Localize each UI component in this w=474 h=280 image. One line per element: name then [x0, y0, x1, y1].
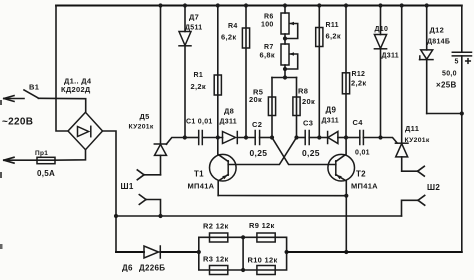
svg-text:КД202Д: КД202Д: [61, 85, 91, 94]
wire cross-coupling C2 node to T2 base: [272, 138, 336, 165]
svg-text:Д226Б: Д226Б: [139, 264, 165, 273]
svg-text:6,8к: 6,8к: [260, 51, 275, 60]
capacitor C3: [297, 131, 320, 145]
svg-text:КУ201к: КУ201к: [129, 124, 154, 131]
potentiometer R6 wiper: [285, 22, 298, 39]
node junction bus D10: [378, 3, 382, 7]
resistor R10 body: [257, 266, 275, 275]
node junction rail R12 collector: [344, 135, 348, 139]
svg-text:С4: С4: [353, 118, 364, 127]
wire fuse to bridge bottom: [55, 150, 86, 161]
svg-text:Д814Б: Д814Б: [427, 39, 450, 46]
connector Sh1 pin 2: [139, 195, 160, 216]
svg-text:С2: С2: [252, 120, 262, 129]
svg-text:МП41А: МП41А: [188, 182, 215, 191]
svg-text:100: 100: [261, 22, 274, 29]
svg-text:R4: R4: [228, 23, 238, 30]
node junction rail R8: [294, 135, 298, 139]
diode D8: [223, 132, 256, 144]
node junction R7 wiper: [283, 67, 287, 71]
svg-text:6,2к: 6,2к: [326, 32, 341, 41]
svg-text:R3 12к: R3 12к: [203, 255, 229, 264]
svg-text:Д5: Д5: [140, 112, 150, 121]
diode D10 column and symbol: [374, 6, 386, 138]
resistor R8 body: [293, 97, 300, 116]
node junction rail R11: [317, 135, 321, 139]
svg-text:0,25: 0,25: [302, 148, 320, 158]
node junction bus D11: [400, 3, 404, 7]
svg-text:Д311: Д311: [322, 118, 339, 125]
wire split to R5 and R8: [272, 77, 297, 79]
svg-text:0,01: 0,01: [355, 150, 370, 157]
scan smudge left edge 1: [0, 100, 2, 105]
svg-text:Ш1: Ш1: [121, 182, 134, 191]
wire cross-coupling C3 node to T1 base: [228, 138, 296, 165]
svg-text:Д9: Д9: [326, 106, 337, 115]
svg-text:Д311: Д311: [382, 53, 399, 60]
switch B1 arm: [24, 90, 39, 98]
svg-text:Д8: Д8: [224, 107, 234, 116]
svg-text:С3: С3: [303, 119, 313, 128]
wire R7 to split node: [284, 65, 286, 78]
node junction bus D12: [425, 3, 429, 7]
bridge inner diode symbol: [78, 126, 91, 136]
svg-text:Д311: Д311: [220, 119, 237, 126]
svg-text:20к: 20к: [249, 95, 262, 104]
node junction rail D7 gate: [183, 135, 187, 139]
svg-text:0,5А: 0,5А: [37, 169, 55, 178]
svg-text:~220В: ~220В: [2, 117, 33, 128]
svg-text:R1: R1: [194, 72, 204, 79]
resistor R5 body: [268, 97, 275, 116]
svg-text:Д10: Д10: [375, 26, 389, 33]
svg-text:0,25: 0,25: [250, 148, 268, 158]
node junction bus R11: [317, 3, 321, 7]
scan smudge left edge 2: [0, 172, 2, 178]
wire switch to bridge top: [39, 98, 86, 112]
wire resistor network middle tie: [242, 237, 244, 270]
resistor R12 column (also T2 collector node): [345, 6, 347, 138]
wire resistor network upper branch: [199, 237, 287, 252]
svg-text:R8: R8: [298, 87, 308, 96]
node junction network right: [285, 250, 289, 254]
connector Sh1 pin 1: [137, 170, 160, 180]
wire resistor network lower branch: [199, 252, 287, 270]
fuse Pr1 body: [37, 157, 55, 163]
zener D12 column and symbol: [420, 6, 434, 114]
thyristor D5 gate wire: [166, 138, 185, 145]
node junction loop bottom right: [460, 111, 464, 115]
svg-text:5: 5: [455, 59, 459, 66]
node junction bus R1: [216, 3, 220, 7]
svg-text:Д12: Д12: [430, 26, 445, 35]
wire top positive bus: [56, 5, 462, 7]
node junction split: [283, 75, 287, 79]
svg-text:R12: R12: [352, 71, 366, 78]
capacitor C4: [346, 131, 381, 145]
svg-text:В1: В1: [29, 83, 39, 92]
resistor R11 column: [318, 6, 320, 138]
gate rail wire with dots (left part): [185, 137, 199, 139]
node junction Sh1 pin2 to line A: [158, 214, 162, 218]
wire bottom rail left segment: [116, 251, 144, 253]
transistor T2: [328, 138, 355, 196]
wire zener loop bottom: [427, 113, 462, 115]
resistor R5 column: [271, 78, 273, 138]
node junction bus R12: [344, 3, 348, 7]
connector Sh2 pin 2: [402, 195, 425, 216]
node junction rail R4: [244, 135, 248, 139]
resistor R3 body: [210, 266, 228, 275]
label plus (C5): [466, 59, 471, 64]
node junction rail R5: [270, 135, 274, 139]
svg-text:2,2к: 2,2к: [191, 82, 206, 91]
wire line A (connector common): [116, 215, 402, 217]
thyristor D5 column from bus: [160, 6, 162, 145]
node junction network mid bottom: [241, 268, 245, 272]
potentiometer R6 body: [281, 13, 289, 34]
wire C1 to R1 node: [202, 137, 222, 139]
svg-text:КУ201к: КУ201к: [405, 137, 430, 144]
svg-text:2,2к: 2,2к: [351, 79, 366, 88]
svg-text:Д511: Д511: [185, 25, 202, 32]
thyristor D11 symbol: [395, 143, 408, 171]
svg-text:Ш2: Ш2: [427, 183, 440, 192]
diode D6: [144, 246, 199, 258]
wire right column upper (bus to C5): [461, 6, 463, 53]
node junction bus D5 column: [158, 3, 162, 7]
node junction emitter to bottom rail: [344, 250, 348, 254]
node junction network left: [197, 250, 201, 254]
diode D9: [319, 132, 346, 144]
svg-text:Д11: Д11: [405, 124, 419, 133]
svg-text:С1 0,01: С1 0,01: [186, 119, 213, 126]
resistor R11 body: [316, 28, 323, 47]
svg-text:R6: R6: [264, 14, 274, 21]
mains arrow left (AC input): [4, 96, 24, 102]
svg-text:R11: R11: [326, 22, 339, 29]
node junction T2 emitter: [344, 194, 348, 198]
scan smudge left edge 3: [0, 244, 3, 249]
thyristor D5 symbol: [154, 144, 166, 175]
transistor T1: [210, 138, 237, 196]
svg-text:Т1: Т1: [194, 170, 204, 179]
svg-text:R10 12к: R10 12к: [248, 256, 278, 265]
svg-text:МП41А: МП41А: [351, 182, 378, 191]
node junction rail R1 collector: [216, 135, 220, 139]
resistor R8 column: [296, 78, 298, 138]
svg-text:6,2к: 6,2к: [221, 33, 236, 42]
node junction rail D10: [378, 135, 382, 139]
svg-text:Д7: Д7: [189, 13, 199, 22]
svg-text:×25В: ×25В: [436, 81, 457, 90]
svg-text:20к: 20к: [302, 97, 315, 106]
wire bottom rail right segment: [287, 251, 462, 253]
capacitor C1: [199, 131, 203, 145]
resistor R1 column: [217, 6, 219, 138]
node junction bus D7: [183, 3, 187, 7]
wire left column from bus to bridge left corner: [56, 6, 68, 132]
svg-text:R9 12к: R9 12к: [249, 221, 275, 230]
svg-text:50,0: 50,0: [442, 71, 457, 78]
resistor R2 body: [210, 233, 228, 242]
node junction lineA-left: [114, 214, 118, 218]
capacitor C2: [255, 131, 272, 145]
node junction R6 wiper: [283, 36, 287, 40]
wire T2 emitter down to bottom rail: [345, 196, 347, 252]
svg-text:R2 12к: R2 12к: [203, 222, 229, 231]
fuse Pr1 arrow and wire: [4, 157, 55, 163]
resistor R12 body: [342, 73, 349, 94]
bridge rectifier D1..D4 diamond: [68, 112, 103, 149]
resistor R9 body: [257, 233, 275, 242]
resistor R1 body: [214, 75, 221, 95]
potentiometer R6 column from bus: [284, 6, 286, 14]
thyristor D11 gate wire: [381, 138, 398, 144]
node junction network mid top: [241, 235, 245, 239]
wire R6 to R7: [284, 34, 286, 44]
potentiometer R7 body: [281, 44, 289, 65]
thyristor D11 column from bus: [401, 6, 403, 144]
node junction bus R6: [283, 3, 287, 7]
svg-text:Т2: Т2: [356, 170, 366, 179]
svg-text:Д6: Д6: [122, 264, 133, 273]
node junction bus R4: [244, 3, 248, 7]
capacitor C5 electrolytic: [452, 52, 471, 252]
wire common emitter rail: [218, 195, 346, 197]
wire bridge right corner down to bottom rail: [103, 131, 117, 252]
diode D7 column and symbol: [179, 6, 191, 138]
resistor R4 body: [242, 28, 249, 48]
svg-text:Пр1: Пр1: [35, 150, 48, 157]
potentiometer R7 wiper: [285, 52, 298, 69]
connector Sh2 pin 1: [402, 166, 425, 176]
resistor R4 column: [245, 6, 247, 138]
